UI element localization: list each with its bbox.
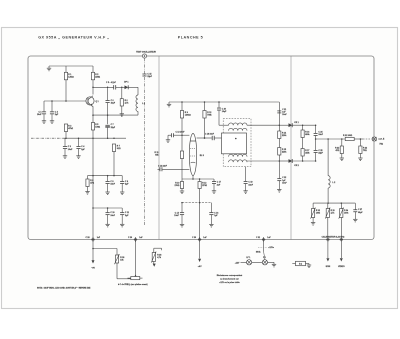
svg-text:C 3: C 3 <box>68 146 71 148</box>
svg-text:GX 955A „ GENERATEUR V.H.: GX 955A „ GENERATEUR V.H.F „ <box>38 35 109 39</box>
feedthrough C29 1nF <box>128 237 143 242</box>
wire main feed column S1 <box>92 138 94 239</box>
svg-text:C 28: C 28 <box>86 237 90 239</box>
ground modulation <box>268 262 277 267</box>
transformer primary winding <box>229 123 247 131</box>
capacitor C20 10pF <box>217 102 227 125</box>
svg-text:C 18 10nF: C 18 10nF <box>205 133 215 135</box>
svg-text:LP 1: LP 1 <box>246 257 250 259</box>
resistor R23 75 <box>358 139 367 161</box>
title text GX 955A GENERATEUR VHF <box>38 35 109 39</box>
svg-text:10nF: 10nF <box>68 149 73 151</box>
lamp LP1 <box>241 257 252 265</box>
wire top supply rail oscillator <box>49 65 93 67</box>
capacitor C24 10nF <box>314 125 324 150</box>
capacitor C16 1uF <box>209 203 218 227</box>
feedthrough C30 1nF <box>192 237 207 242</box>
resistor R15 220k <box>278 148 288 156</box>
wire emitter down <box>92 106 93 115</box>
transformer core box <box>222 133 247 154</box>
svg-text:C 30: C 30 <box>192 237 196 239</box>
capacitor C3 10nF <box>63 138 73 158</box>
svg-text:R 16: R 16 <box>305 131 309 133</box>
svg-text:CR 2: CR 2 <box>294 165 298 167</box>
svg-text:Résistances correspondant: Résistances correspondant <box>217 274 243 277</box>
capacitor C10 10nF <box>105 208 115 227</box>
feedthrough C33 VIDEO <box>338 237 345 268</box>
ground top rail <box>47 66 51 71</box>
feedthrough C32 SON <box>326 237 331 268</box>
inductor L2 <box>328 139 335 203</box>
node detector bottom <box>279 160 281 162</box>
wire oscillator output horizontal <box>93 86 123 88</box>
wire decoupling row A <box>88 175 123 177</box>
svg-text:C 5 - 4,7pF: C 5 - 4,7pF <box>106 81 117 84</box>
svg-text:R 9: R 9 <box>185 112 188 114</box>
ground grid cap <box>166 135 170 142</box>
svg-text:C 9: C 9 <box>125 181 128 183</box>
wire branch to pot R26 <box>92 248 117 255</box>
wire middle supply rail <box>169 101 279 103</box>
potentiometer R26 10k <box>114 254 124 264</box>
label calibrateur section <box>322 236 345 239</box>
capacitor C14 10nF <box>174 203 184 227</box>
wire grid coupling <box>168 134 171 136</box>
svg-text:R 17: R 17 <box>305 150 309 152</box>
wire R9 column <box>181 118 183 151</box>
wire -9V drop <box>91 241 95 269</box>
wire collector to output node <box>92 87 94 95</box>
connector sortie 75 ohm <box>372 137 385 146</box>
wire R13 column to C30 <box>199 189 201 240</box>
svg-text:MOD.: MOD. <box>256 252 261 254</box>
wire SON column <box>327 218 329 238</box>
wire pot R26 to freq control <box>117 263 131 279</box>
feedthrough C28 1nF <box>86 237 101 242</box>
resistor R16 680k <box>301 125 310 148</box>
wire detector column <box>278 102 280 161</box>
svg-text:R 32: R 32 <box>316 210 320 212</box>
svg-text:120kΩ: 120kΩ <box>185 115 191 117</box>
note nota bottom left <box>37 286 91 289</box>
svg-text:EL 3: EL 3 <box>200 155 204 157</box>
svg-text:3,9kΩ: 3,9kΩ <box>68 77 74 79</box>
svg-text:C 17: C 17 <box>217 182 221 184</box>
svg-text:C 19: C 19 <box>248 182 252 184</box>
label freq control <box>118 283 148 286</box>
resistor R5 100 <box>91 115 100 138</box>
wire cathode line C12 <box>158 168 190 170</box>
svg-text:+12V: +12V <box>235 262 240 264</box>
svg-text:C 16: C 16 <box>214 212 218 214</box>
connector TEST OSCILLATEUR <box>136 51 156 59</box>
svg-text:5 Ω: 5 Ω <box>299 264 303 266</box>
section divider left <box>158 56 160 240</box>
capacitor C17 2nF <box>212 179 221 193</box>
svg-text:L 2: L 2 <box>332 182 335 184</box>
diode DP1 <box>123 82 138 90</box>
drawing frame <box>28 56 374 240</box>
wire to output connector <box>354 138 372 140</box>
inductor L1 <box>136 87 146 115</box>
svg-text:10pF: 10pF <box>111 103 116 105</box>
svg-text:sort. E: sort. E <box>378 138 385 141</box>
svg-text:C 20: C 20 <box>222 108 226 110</box>
resistor R14 220k <box>278 131 288 139</box>
resistor R17 440k <box>301 149 310 162</box>
potentiometer R34 100k <box>339 203 350 219</box>
capacitor C18 10nF <box>205 133 222 140</box>
svg-text:220Ω: 220Ω <box>95 77 100 79</box>
potentiometer R33 4.7k <box>325 203 335 219</box>
resistor R31 5 ohm box <box>292 261 311 267</box>
node base-R3 <box>65 100 67 102</box>
svg-text:R 22: R 22 <box>335 147 339 149</box>
svg-text:270Ω: 270Ω <box>175 185 180 187</box>
diode CR1 <box>279 122 316 127</box>
title text PLANCHE 5 <box>178 35 203 39</box>
wire output tap <box>316 138 346 140</box>
svg-text:R 2: R 2 <box>95 74 98 76</box>
capacitor C9 2uF <box>120 176 129 195</box>
diode CR2 <box>279 159 316 167</box>
wire negative supply bus <box>31 137 126 139</box>
svg-text:au branchement sur: au branchement sur <box>220 277 239 280</box>
svg-text:F 1: F 1 <box>263 257 266 259</box>
resistor R21 100 horizontal <box>343 135 354 141</box>
resistor R8 47 <box>85 176 94 195</box>
capacitor C27 68pF <box>353 203 363 222</box>
capacitor C2 2uF <box>50 100 59 123</box>
svg-text:SON: SON <box>326 266 331 268</box>
svg-text:R 12: R 12 <box>207 112 211 114</box>
svg-text:10pF: 10pF <box>222 111 227 113</box>
feedthrough C31 1nF <box>256 237 271 242</box>
label +12V supply <box>235 262 240 264</box>
capacitor C4 2uF <box>76 137 85 158</box>
svg-text:C 27: C 27 <box>358 209 362 211</box>
tube V1 EL3 <box>189 134 204 176</box>
label MOD <box>256 252 261 254</box>
svg-text:CALIBRATEUR 4,43 MHz: CALIBRATEUR 4,43 MHz <box>322 236 345 239</box>
wire test oscillateur line <box>144 58 146 225</box>
resistor R7 91 <box>112 144 121 176</box>
svg-text:TEST OSCILLATEUR: TEST OSCILLATEUR <box>136 51 156 54</box>
svg-text:R 23: R 23 <box>363 147 367 149</box>
capacitor C13 grid <box>172 132 190 138</box>
svg-text:C 2: C 2 <box>55 111 58 113</box>
section divider right <box>290 56 292 240</box>
wire emitter rail <box>92 114 138 116</box>
svg-text:+12V ou la prise vidéo: +12V ou la prise vidéo <box>219 282 240 284</box>
wire calibrator rail <box>313 202 355 204</box>
svg-text:PLANCHE 5: PLANCHE 5 <box>178 35 203 39</box>
svg-text:R 33: R 33 <box>331 210 335 212</box>
wire C20 to primary <box>219 124 229 126</box>
transformer TR1 shield box dashed <box>223 119 251 167</box>
svg-text:R 6: R 6 <box>125 100 128 102</box>
svg-text:R 13: R 13 <box>202 182 206 184</box>
resistor R13 270 <box>198 179 207 189</box>
potentiometer R28 4.7k <box>151 248 162 267</box>
svg-text:10nF: 10nF <box>174 215 179 217</box>
wire modulation feed <box>264 242 265 260</box>
transistor Q1 <box>86 96 100 106</box>
svg-text:270Ω: 270Ω <box>202 185 207 187</box>
svg-text:+12Vᴄ: +12Vᴄ <box>268 247 275 249</box>
svg-text:−9V: −9V <box>91 267 95 269</box>
svg-text:47kΩ: 47kΩ <box>68 127 73 130</box>
resistor R11 68k <box>155 151 184 179</box>
resistor R1 3.9k <box>64 66 74 101</box>
resistor R6 4.7k <box>120 87 129 114</box>
capacitor C7 22uF polarized <box>105 115 116 138</box>
capacitor C25 22nF <box>314 150 324 161</box>
svg-text:47Ω: 47Ω <box>335 149 339 152</box>
wire C29 to freq pot <box>135 241 137 276</box>
svg-text:91Ω: 91Ω <box>117 148 121 150</box>
capacitor C15 22pF <box>142 73 152 78</box>
capacitor C12 22nF <box>158 166 168 172</box>
svg-text:C 29: C 29 <box>128 237 132 239</box>
svg-text:100Ω: 100Ω <box>95 127 100 129</box>
label +12V leader <box>258 247 275 249</box>
svg-text:C 7: C 7 <box>111 124 114 126</box>
svg-text:C 12 22nF: C 12 22nF <box>158 166 168 168</box>
svg-text:R 3: R 3 <box>68 125 71 127</box>
note resistances <box>217 274 243 284</box>
resistor R22 47 <box>335 139 344 161</box>
wire base <box>44 100 86 102</box>
svg-text:R 21 100Ω: R 21 100Ω <box>343 135 353 137</box>
svg-text:C 13 10nF: C 13 10nF <box>176 132 186 134</box>
svg-text:+9V: +9V <box>198 266 202 268</box>
svg-text:R 26: R 26 <box>120 257 124 259</box>
potentiometer freq control <box>128 275 143 280</box>
capacitor C11 2uF <box>120 208 130 227</box>
tube bottom leads <box>182 176 214 180</box>
transformer center dot <box>235 138 237 140</box>
wire VIDEO column <box>340 218 342 238</box>
ground under R6 <box>120 114 124 117</box>
svg-text:75Ω: 75Ω <box>379 144 383 146</box>
ground middle rail <box>167 102 171 107</box>
svg-text:C 31: C 31 <box>256 237 260 239</box>
capacitor C21 10nF <box>277 109 287 116</box>
wire secondary to detector <box>247 160 279 162</box>
potentiometer R32 100k <box>311 203 322 225</box>
svg-text:75Ω: 75Ω <box>363 150 367 152</box>
svg-text:VIDEO: VIDEO <box>338 266 345 268</box>
wire primary to detector <box>247 124 279 126</box>
svg-text:à C de FREQ. (sur platine avan: à C de FREQ. (sur platine avant) <box>118 283 148 286</box>
wire dashed row mid <box>181 202 211 204</box>
resistor R10 270 <box>175 179 185 194</box>
wire anode to C18 <box>197 137 212 139</box>
svg-text:C 6: C 6 <box>111 100 114 102</box>
resistor R12 780k <box>203 102 213 139</box>
capacitor C8 10nF <box>105 176 115 195</box>
capacitor C22 1uF <box>277 161 287 192</box>
resistor R9 120k <box>180 102 191 118</box>
wire +9V drop <box>198 242 202 269</box>
capacitor C1 10nF <box>37 101 46 123</box>
capacitor C6 10pF <box>106 87 116 116</box>
resistor R2 220 <box>91 66 100 87</box>
fuse F1 <box>252 257 268 265</box>
node detector top <box>279 124 281 126</box>
svg-text:47Ω: 47Ω <box>90 182 94 185</box>
svg-text:R 10: R 10 <box>175 182 179 184</box>
svg-text:C 10: C 10 <box>110 212 114 214</box>
capacitor C5 4.7pF <box>106 81 117 89</box>
resistor R3 47k <box>64 124 73 138</box>
node output tap <box>315 138 317 140</box>
svg-text:NOTA : SAUF INDIC. LES COND. S: NOTA : SAUF INDIC. LES COND. SONT EN µF … <box>37 286 91 289</box>
capacitor C19 10nF <box>243 167 253 194</box>
svg-text:R 7: R 7 <box>117 145 120 147</box>
transformer secondary winding <box>229 154 247 162</box>
wire decoupling row B <box>92 207 122 209</box>
